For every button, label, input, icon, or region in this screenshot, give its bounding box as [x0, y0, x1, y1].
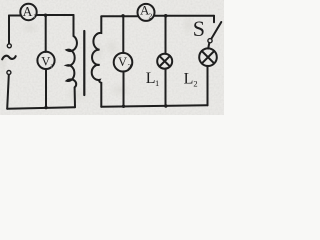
terminal: AC source upper [7, 44, 11, 48]
node: junction V2 bottom [122, 105, 125, 108]
terminal: AC source lower [7, 71, 11, 75]
transformer primary coil [67, 15, 77, 107]
svg-text:1: 1 [155, 78, 159, 88]
wire: left circuit top horizontal (to ammeter) [9, 15, 21, 17]
svg-text:2: 2 [149, 11, 153, 20]
node: junction L1 top [164, 14, 168, 18]
svg-text:V: V [41, 55, 50, 69]
wire: switch fixed contact stub [213, 16, 215, 22]
wire: left circuit lower-left vertical [7, 75, 9, 109]
svg-text:A: A [23, 4, 33, 19]
switch S pivot [208, 39, 212, 43]
wire: V2 top lead [122, 16, 124, 53]
wire: V1 top lead [45, 15, 47, 52]
node: junction V1 bottom [44, 106, 47, 109]
transformer secondary coil [92, 17, 102, 107]
ammeter A2 [138, 4, 155, 21]
wire: L1 bottom lead [165, 69, 167, 107]
svg-text:1: 1 [50, 63, 53, 70]
ammeter A1 [20, 4, 36, 20]
switch S blade [212, 22, 222, 39]
wire: V1 bottom lead [45, 69, 47, 108]
wire: V2 bottom lead [123, 71, 125, 106]
transformer core [83, 31, 85, 95]
wire: pivot to lamp L2 [208, 43, 209, 49]
svg-text:V: V [118, 55, 127, 69]
lamp L2 [199, 48, 217, 66]
svg-text:S: S [193, 16, 205, 41]
AC source tilde [2, 56, 16, 60]
wire: top horizontal from A1 to primary [37, 14, 74, 16]
wire: left circuit top-left vertical [8, 16, 10, 44]
node: junction V2 top [121, 14, 124, 17]
wire: L1 top lead [165, 16, 167, 54]
wire: top horizontal from A2 to switch corner [154, 15, 214, 17]
svg-text:L: L [184, 70, 194, 87]
wire: left circuit bottom horizontal [7, 107, 75, 109]
svg-text:2: 2 [128, 62, 132, 71]
voltmeter V1 [37, 52, 54, 69]
svg-text:2: 2 [193, 78, 197, 88]
wire: L2 bottom lead [207, 66, 209, 105]
lamp L1 [157, 54, 172, 69]
lamp L1 cross [159, 56, 170, 67]
voltmeter V2 [114, 53, 133, 72]
node: junction L1 bottom [164, 104, 167, 107]
node: junction V1 top [44, 14, 47, 17]
wire: right circuit top horizontal (secondary to A2) [101, 15, 137, 17]
svg-text:1: 1 [33, 13, 36, 20]
wire: right circuit bottom horizontal [101, 105, 207, 107]
lamp L2 cross [202, 51, 214, 63]
